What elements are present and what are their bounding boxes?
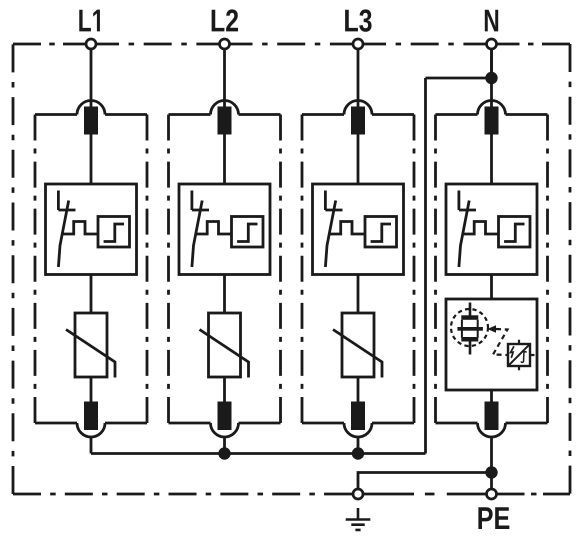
status indicator box L2: [232, 217, 264, 248]
disconnect switch L1: blade: [58, 201, 68, 268]
enclosure border top edge (dash-dot, anchored at terminals): [13, 43, 91, 46]
wire N terminal to top plug: [490, 49, 493, 107]
wire junction to ground drop: [358, 473, 492, 489]
wire spark-gap box to bottom plug N: [490, 390, 493, 402]
enclosure border bottom edge between PE and ground terminals: [364, 493, 486, 496]
status indicator box L3: [365, 217, 397, 248]
label PE: [478, 507, 509, 529]
module L1 right boundary (dash-dot): [146, 115, 149, 424]
plug contact bottom L2 (filled): [218, 402, 232, 431]
wire varistor to bottom plug L3: [357, 377, 360, 402]
plug contact top L1 (filled): [84, 107, 98, 135]
node junction N top: [485, 72, 497, 84]
status indicator step signal L2: [237, 224, 257, 242]
wire bottom plug to bus L3: [357, 437, 360, 454]
module L1 bottom edge with plug socket arc: [35, 423, 147, 437]
trigger circuit box ticks: [519, 340, 535, 370]
label L2: [212, 9, 238, 31]
thermal disconnector box L2: [179, 184, 270, 275]
wire N junction horizontal to left riser: [426, 77, 492, 80]
varistor L1: body: [75, 313, 107, 377]
module L3 bottom edge with plug socket arc: [302, 423, 414, 437]
plug contact top L3 (filled): [351, 107, 365, 135]
disconnect switch L2: fixed contact lead: [190, 191, 193, 211]
thermal disconnector box N: [446, 184, 537, 275]
plug contact bottom L3 (filled): [351, 402, 365, 431]
gas discharge tube: bottom lead: [469, 342, 472, 355]
wire disconnector to spark-gap box N: [490, 275, 493, 300]
wire N riser vertical down to varistor bus: [424, 78, 427, 454]
module L3 left boundary (dash-dot): [301, 115, 304, 424]
wire N bottom plug to PE junction: [490, 437, 493, 473]
node junction bus L2: [218, 447, 230, 459]
varistor L3: diagonal stroke: [333, 330, 382, 378]
status indicator box N: [499, 217, 531, 248]
disconnect switch L3: fixed contact lead: [324, 191, 327, 211]
module L2 protection path: top edge with plug socket arc: [169, 101, 281, 115]
wire top plug to disconnector N: [490, 135, 493, 185]
node junction bus L3: [352, 447, 364, 459]
terminal L2: [220, 39, 230, 49]
gas discharge tube: middle electrode bar: [457, 327, 483, 331]
module N protection path: top edge with plug socket arc: [436, 101, 548, 115]
gas discharge tube: body sides: [462, 320, 478, 338]
trigger arrow (points at tube): [487, 325, 496, 332]
disconnect switch N: blade: [459, 201, 469, 268]
trigger circuit integral glyph: [521, 352, 526, 363]
gas discharge tube: bottom electrode bar: [461, 337, 478, 342]
trigger circuit lightning bolt: [511, 346, 514, 357]
enclosure border bottom edge right part (dash-dot): [497, 493, 570, 496]
terminal ground: [353, 489, 363, 499]
terminal PE: [487, 489, 497, 499]
wire disconnector to varistor L2: [223, 275, 226, 314]
status indicator step signal N: [504, 224, 524, 242]
wire bottom plug to bus L1: [90, 437, 93, 454]
label L3: [345, 9, 371, 31]
module L2 bottom edge with plug socket arc: [169, 423, 281, 437]
ground symbol: [346, 508, 371, 530]
spark-gap unit box N: [446, 299, 537, 390]
disconnect switch L3: blade: [325, 201, 335, 268]
thermal disconnector box L3: [313, 184, 404, 275]
wire disconnector to varistor L1: [90, 275, 93, 314]
wire top plug to disconnector L2: [223, 135, 226, 185]
module L3 right boundary (dash-dot): [413, 115, 416, 424]
trigger control dashed link: [493, 329, 508, 355]
disconnect switch N: fixed contact lead: [457, 191, 460, 211]
plug contact bottom N (filled): [485, 402, 499, 431]
wire L1 terminal to top plug: [90, 49, 93, 107]
trigger circuit box: [508, 344, 530, 366]
gas discharge tube: top electrode bar: [461, 315, 478, 320]
wire varistor to bottom plug L2: [223, 377, 226, 402]
mechanical link L2 (staircase): [195, 222, 232, 235]
trigger circuit box diagonal: [509, 345, 530, 366]
disconnect switch L1: contact tick: [58, 209, 75, 212]
wire L2 terminal to top plug: [223, 49, 226, 107]
module L2 right boundary (dash-dot): [279, 115, 282, 424]
module N bottom edge with plug socket arc: [436, 423, 548, 437]
wire L3 terminal to top plug: [357, 49, 360, 107]
status indicator box L1: [98, 217, 130, 248]
wire varistor to bottom plug L1: [90, 377, 93, 402]
varistor L2: diagonal stroke: [200, 330, 249, 378]
wire top plug to disconnector L1: [90, 135, 93, 185]
module L2 left boundary (dash-dot): [167, 115, 170, 424]
gas discharge tube: dashed circle: [451, 309, 488, 346]
gas discharge tube: top lead: [469, 303, 472, 316]
disconnect switch L2: contact tick: [192, 209, 209, 212]
label N: [485, 10, 498, 32]
module L3 protection path: top edge with plug socket arc: [302, 101, 414, 115]
wire bottom varistor bus: [91, 452, 426, 455]
enclosure border bottom edge left part (dash-dot): [13, 493, 352, 496]
mechanical link L1 (staircase): [62, 222, 99, 235]
status indicator step signal L3: [371, 224, 391, 242]
varistor L2: body: [209, 313, 241, 377]
label L1: [79, 10, 100, 32]
terminal L1: [86, 39, 96, 49]
thermal disconnector box L1: [46, 184, 137, 275]
disconnect switch N: contact tick: [459, 209, 476, 212]
status indicator step signal L1: [104, 224, 124, 242]
wire N terminal drop to junction: [490, 49, 493, 78]
disconnect switch L2: blade: [192, 201, 202, 268]
wire top plug to disconnector L3: [357, 135, 360, 185]
varistor L3: body: [342, 313, 374, 377]
disconnect switch L1: fixed contact lead: [57, 191, 60, 211]
module N right boundary (dash-dot): [546, 115, 549, 424]
plug contact top L2 (filled): [218, 107, 232, 135]
disconnect switch L3: contact tick: [325, 209, 342, 212]
node junction PE: [485, 466, 497, 478]
trigger circuit lightning bolt arrowhead: [511, 356, 513, 359]
wire disconnector to varistor L3: [357, 275, 360, 314]
terminal N: [487, 39, 497, 49]
mechanical link L3 (staircase): [329, 222, 366, 235]
terminal L3: [353, 39, 363, 49]
plug contact top N (filled): [485, 107, 499, 135]
module L1 left boundary (dash-dot): [34, 115, 37, 424]
plug contact bottom L1 (filled): [84, 402, 98, 431]
varistor L1: diagonal stroke: [66, 330, 115, 378]
enclosure border left edge (dash-dot): [12, 44, 15, 494]
wire bottom plug to bus L2: [223, 437, 226, 454]
enclosure border right edge (dash-dot): [569, 44, 572, 494]
module L1 protection path: top edge with plug socket arc: [35, 101, 147, 115]
mechanical link N (staircase): [462, 222, 499, 235]
module N left boundary (dash-dot): [434, 115, 437, 424]
wire junction to PE terminal: [490, 473, 493, 489]
